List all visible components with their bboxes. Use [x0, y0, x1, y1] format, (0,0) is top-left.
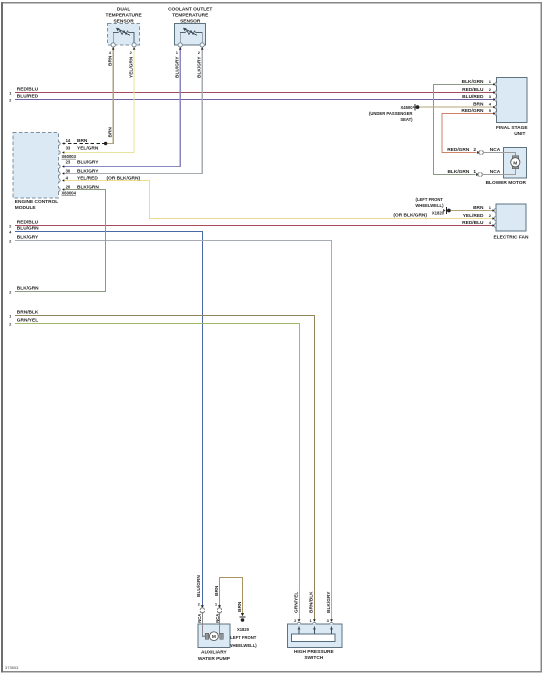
pin 1 (electric fan): [494, 209, 496, 213]
svg-text:SWITCH: SWITCH: [304, 655, 323, 661]
svg-text:BLK/GRN: BLK/GRN: [17, 286, 39, 292]
svg-text:(OR BLK/GRN): (OR BLK/GRN): [107, 175, 141, 181]
wire BRN/BLK (to high pressure switch pin 1): [9, 309, 315, 619]
svg-text:BLK/GRY: BLK/GRY: [197, 56, 203, 78]
svg-text:YEL/GRN: YEL/GRN: [129, 56, 135, 78]
motor symbol (auxiliary water pump): [205, 633, 208, 639]
svg-text:SEAT): SEAT): [400, 117, 413, 122]
pin 4 (electric fan): [494, 224, 496, 228]
svg-text:BLK/GRY: BLK/GRY: [17, 235, 39, 241]
svg-text:YEL/RED: YEL/RED: [77, 175, 98, 181]
svg-text:(OR BLK/GRN): (OR BLK/GRN): [393, 212, 427, 218]
svg-text:BLU/GRN: BLU/GRN: [196, 575, 202, 597]
svg-text:AUXILIARY: AUXILIARY: [201, 650, 227, 656]
final stage unit: [461, 78, 528, 137]
pin 4 (final stage unit): [495, 105, 497, 109]
pin 1 (final stage unit): [495, 83, 497, 87]
wire BRN auxiliary water pump pin 1 to X1820 connector: [214, 578, 257, 649]
svg-text:HIGH PRESSURE: HIGH PRESSURE: [294, 649, 335, 655]
svg-text:YEL/RED: YEL/RED: [463, 213, 484, 219]
wire GRN/YEL (to high pressure switch pin 4): [9, 317, 299, 619]
svg-text:30: 30: [66, 168, 71, 173]
wire YEL/RED ECM pin 4 to electric fan pin 2: [63, 181, 494, 219]
svg-text:WHEELWELL): WHEELWELL): [229, 643, 258, 648]
wire RED/GRN final stage unit pin 5 to blower motor connector: [442, 114, 494, 153]
wire BLK/GRN (ECM pin 20 to left edge): [9, 190, 105, 295]
svg-text:BRN: BRN: [237, 601, 243, 612]
svg-text:BRN: BRN: [214, 585, 220, 596]
svg-text:GRN/YEL: GRN/YEL: [293, 592, 299, 613]
svg-text:RED/BLU: RED/BLU: [462, 87, 484, 93]
wire BRN X1820 connector to electric fan pin 1: [415, 197, 493, 215]
svg-text:M: M: [513, 160, 517, 166]
svg-text:TEMPERATURE: TEMPERATURE: [106, 13, 143, 19]
motor symbol (blower motor): [512, 156, 519, 159]
electric fan: [462, 204, 529, 241]
svg-text:BLU/GRY: BLU/GRY: [77, 160, 99, 166]
svg-text:NCA: NCA: [197, 614, 202, 623]
svg-text:23: 23: [66, 160, 71, 165]
wire RED/BLU (top, to final stage unit pin 2): [9, 86, 496, 95]
svg-text:(LEFT FRONT: (LEFT FRONT: [229, 635, 257, 640]
svg-text:X4500: X4500: [400, 105, 413, 110]
junction node (BRN): [104, 142, 107, 145]
wire BLU/GRY coolant sensor pin 1 to ECM pin 23: [63, 47, 181, 167]
engine control module: [13, 133, 140, 211]
svg-text:BLK/GRN 1: BLK/GRN 1: [447, 169, 476, 175]
pin 3 (high pressure switch): [330, 622, 334, 624]
svg-text:GRN/YEL: GRN/YEL: [17, 317, 38, 323]
svg-text:RED/GRN: RED/GRN: [461, 108, 484, 114]
svg-text:BRN: BRN: [77, 138, 88, 144]
wire NCA gray into blower motor (pin 1): [482, 169, 516, 175]
svg-text:BLU/GRN: BLU/GRN: [17, 226, 39, 232]
svg-text:BRN/BLK: BRN/BLK: [309, 591, 315, 613]
pin 1 (high pressure switch): [313, 622, 317, 624]
svg-text:RED/GRN 2: RED/GRN 2: [447, 147, 476, 153]
wire BLK/GRY (to high pressure switch pin 3): [9, 235, 332, 620]
svg-text:X60003: X60003: [62, 154, 77, 159]
svg-text:373503: 373503: [5, 665, 19, 670]
svg-text:ENGINE CONTROL: ENGINE CONTROL: [15, 199, 59, 205]
svg-text:BLU/RED: BLU/RED: [462, 94, 484, 100]
svg-text:BLK/GRN: BLK/GRN: [77, 184, 99, 190]
pin 2 (dual temperature sensor): [132, 43, 136, 47]
svg-text:14: 14: [66, 138, 71, 143]
svg-text:FINAL STAGE: FINAL STAGE: [496, 125, 528, 131]
pin 30 (ECM): [58, 172, 60, 176]
wire BLK/GRY coolant sensor pin 2 to ECM pin 30: [63, 47, 203, 174]
coolant outlet temperature sensor: [168, 7, 212, 55]
auxiliary water pump: [197, 601, 231, 662]
svg-text:RED/BLU: RED/BLU: [462, 220, 484, 226]
svg-text:NCA: NCA: [490, 147, 501, 153]
svg-text:BRN: BRN: [108, 127, 114, 138]
pin 4 (high pressure switch): [297, 622, 301, 624]
pin 4 (ECM): [58, 179, 60, 183]
wire BLK/GRN final stage unit pin 1 to blower motor connector: [433, 84, 493, 174]
wire RED/BLU (to electric fan pin 4): [9, 220, 493, 229]
pin 1 (coolant outlet temperature sensor): [178, 43, 182, 47]
pin 3 (final stage unit): [495, 98, 497, 102]
inline connector NCA (BRN, water pump pin 1): [218, 605, 221, 608]
svg-text:M: M: [212, 634, 216, 640]
wire BRN dashed to ECM pin 14: [63, 143, 106, 145]
svg-text:BLK/GRY: BLK/GRY: [77, 168, 99, 174]
svg-text:MODULE: MODULE: [15, 205, 37, 211]
svg-text:NCA: NCA: [490, 169, 501, 175]
svg-text:COOLANT OUTLET: COOLANT OUTLET: [168, 7, 212, 13]
wire BLU/RED (top, to final stage unit pin 3): [9, 93, 496, 102]
svg-text:BLU/RED: BLU/RED: [17, 93, 39, 99]
svg-text:BRN: BRN: [473, 205, 484, 211]
connector X4500 (under passenger seat): [414, 104, 416, 111]
thermistor (coolant outlet temperature sensor): [180, 32, 185, 43]
svg-text:33: 33: [66, 145, 71, 150]
svg-text:BLOWER MOTOR: BLOWER MOTOR: [486, 180, 527, 186]
svg-text:X60004: X60004: [62, 191, 77, 196]
svg-text:20: 20: [66, 184, 71, 189]
pin 4 (dual temperature sensor): [111, 43, 115, 47]
svg-text:BLK/GRY: BLK/GRY: [326, 591, 332, 613]
pin 2 (final stage unit): [495, 91, 497, 95]
svg-text:TEMPERATURE: TEMPERATURE: [172, 13, 209, 19]
svg-text:BRN: BRN: [473, 102, 484, 108]
wire BRN dual sensor pin 4 to junction: [106, 47, 114, 144]
blower motor: [447, 147, 526, 186]
svg-text:RED/BLU: RED/BLU: [17, 220, 39, 226]
high pressure switch: [288, 618, 342, 661]
svg-text:X1820: X1820: [432, 210, 445, 215]
pin 33 (ECM): [58, 151, 60, 155]
svg-text:BRN/BLK: BRN/BLK: [17, 309, 39, 315]
svg-text:(UNDER PASSENGER: (UNDER PASSENGER: [369, 111, 412, 116]
wire BLU/GRN (to auxiliary water pump): [9, 226, 202, 606]
svg-text:WHEELWELL): WHEELWELL): [415, 203, 444, 208]
inline connector NCA (BLU/GRN, water pump pin 2): [201, 605, 204, 608]
svg-text:BRN: BRN: [108, 55, 114, 66]
pin 5 (final stage unit): [495, 112, 497, 116]
pin 2 (electric fan): [494, 217, 496, 221]
inline connector NCA (BLK/GRN, blower motor pin 1): [476, 173, 479, 176]
connector X1820 (left front wheelwell, water pump): [241, 613, 244, 616]
wire BRN X4500 connector to final stage unit pin 4: [369, 104, 494, 122]
inline connector NCA (RED/GRN, blower motor pin 2): [477, 151, 480, 154]
svg-text:YEL/GRN: YEL/GRN: [77, 145, 99, 151]
pin 23 (ECM): [58, 165, 60, 169]
svg-text:ELECTRIC FAN: ELECTRIC FAN: [494, 234, 529, 240]
wire YEL/GRN dual sensor pin 2 to ECM pin 33: [63, 47, 135, 153]
pin 14 (ECM): [58, 142, 60, 146]
wire NCA gray into blower motor (pin 2): [483, 153, 516, 157]
page edge shading (left): [1, 2, 3, 673]
svg-text:RED/BLU: RED/BLU: [17, 86, 39, 92]
svg-text:X1820: X1820: [237, 627, 250, 632]
pin 20 (ECM): [58, 188, 60, 192]
svg-text:BLU/GRY: BLU/GRY: [175, 56, 181, 78]
svg-text:(LEFT FRONT: (LEFT FRONT: [416, 197, 444, 202]
pin 2 (coolant outlet temperature sensor): [200, 43, 204, 47]
svg-text:WATER PUMP: WATER PUMP: [198, 656, 231, 662]
connector X1820 (left front wheelwell): [445, 207, 447, 214]
svg-text:DUAL: DUAL: [117, 7, 130, 13]
dual temperature sensor: [106, 7, 143, 55]
svg-text:UNIT: UNIT: [514, 131, 525, 137]
svg-text:BLK/GRN: BLK/GRN: [462, 79, 484, 85]
thermistor (dual temperature sensor): [113, 32, 118, 43]
